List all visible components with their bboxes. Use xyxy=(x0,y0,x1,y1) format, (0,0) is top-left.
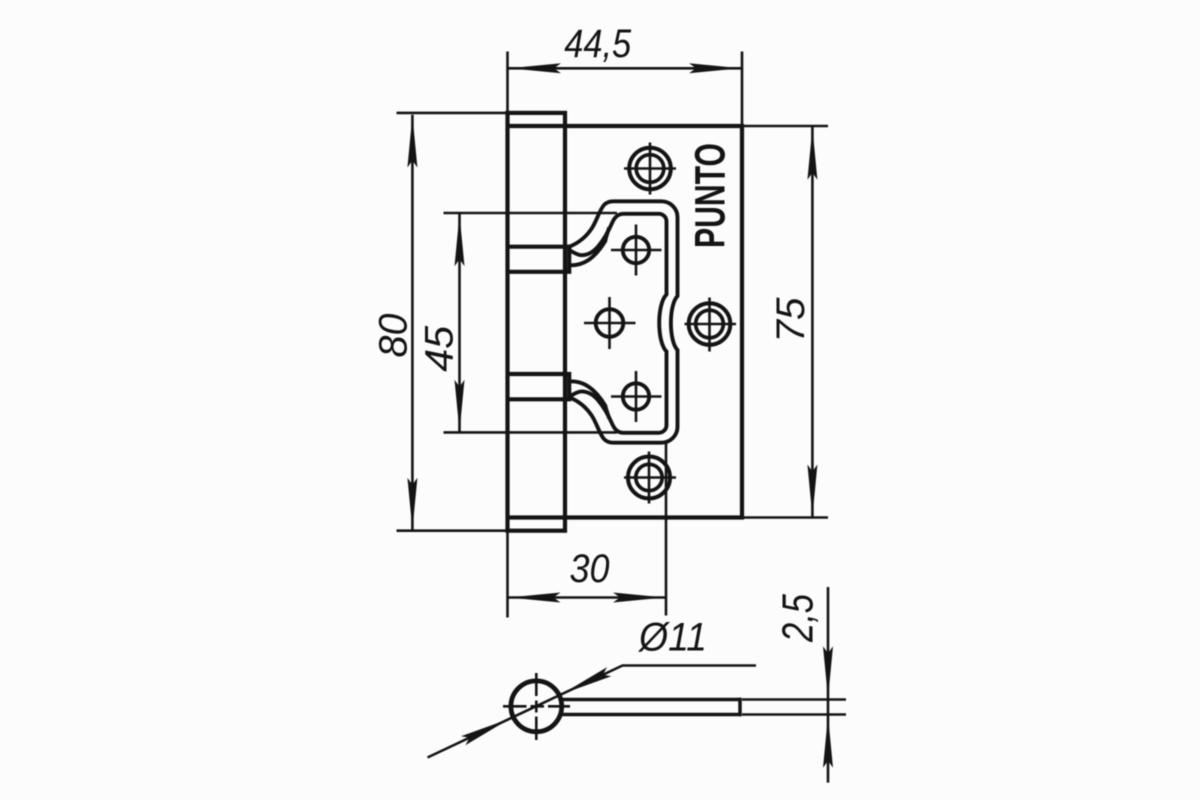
svg-text:2,5: 2,5 xyxy=(774,594,823,643)
upper knuckle sleeve xyxy=(506,247,569,272)
screw hole H4 middle right countersunk xyxy=(689,303,731,345)
leaf bar, side view xyxy=(563,698,741,717)
svg-text:45: 45 xyxy=(417,325,461,372)
dim 30 line xyxy=(508,596,667,599)
lower knuckle sleeve xyxy=(506,374,569,399)
dim 80 line xyxy=(411,115,414,530)
cutout outer edge line xyxy=(569,201,677,442)
svg-text:30: 30 xyxy=(570,547,610,591)
dia 11 leader arrows xyxy=(560,667,611,698)
dim 75 line xyxy=(811,127,814,517)
dim 44,5 line xyxy=(508,67,742,70)
dim 2,5 arrows xyxy=(823,646,833,698)
dim 45 arrows xyxy=(455,214,465,266)
hole H2 upper in cutout xyxy=(623,237,649,263)
screw hole H6 bottom countersunk xyxy=(628,457,670,499)
pin circle, side view xyxy=(511,681,562,732)
hole H3 middle left xyxy=(596,309,624,337)
dim 80 arrows xyxy=(407,116,417,168)
dim 45 extension lines xyxy=(444,213,618,432)
hole H5 lower in cutout xyxy=(623,383,649,409)
dim 30 arrows xyxy=(509,593,561,603)
dim 75 extension lines xyxy=(742,126,828,518)
dim 2,5 line xyxy=(827,587,830,783)
dim 30 extension lines xyxy=(508,443,667,618)
dim 44,5 arrows xyxy=(509,63,561,73)
cutout fold line B (upper transition) xyxy=(569,228,609,266)
pin circle crosshair (center-line dashes) xyxy=(503,673,570,740)
dim 75 arrows xyxy=(807,128,817,180)
dia 11 leader line xyxy=(428,666,757,758)
dim 44,5 extension lines xyxy=(508,52,743,127)
dim 45 line xyxy=(458,214,461,433)
svg-text:75: 75 xyxy=(769,297,813,343)
dim 2,5 extension lines xyxy=(742,700,846,715)
svg-text:80: 80 xyxy=(372,314,416,358)
hinge barrel (pin knuckle column) xyxy=(508,113,566,531)
svg-text:Ø11: Ø11 xyxy=(637,616,707,660)
hinge plate (flat leaf), plan view xyxy=(508,126,743,518)
svg-text:PUNTO: PUNTO xyxy=(687,143,735,248)
dim 80 extension lines xyxy=(397,113,563,531)
svg-text:44,5: 44,5 xyxy=(564,22,632,66)
cutout inner edge line A (upper) xyxy=(569,214,666,433)
screw hole H1 top countersunk xyxy=(629,148,671,190)
cutout fold line B (lower transition) xyxy=(569,381,609,418)
